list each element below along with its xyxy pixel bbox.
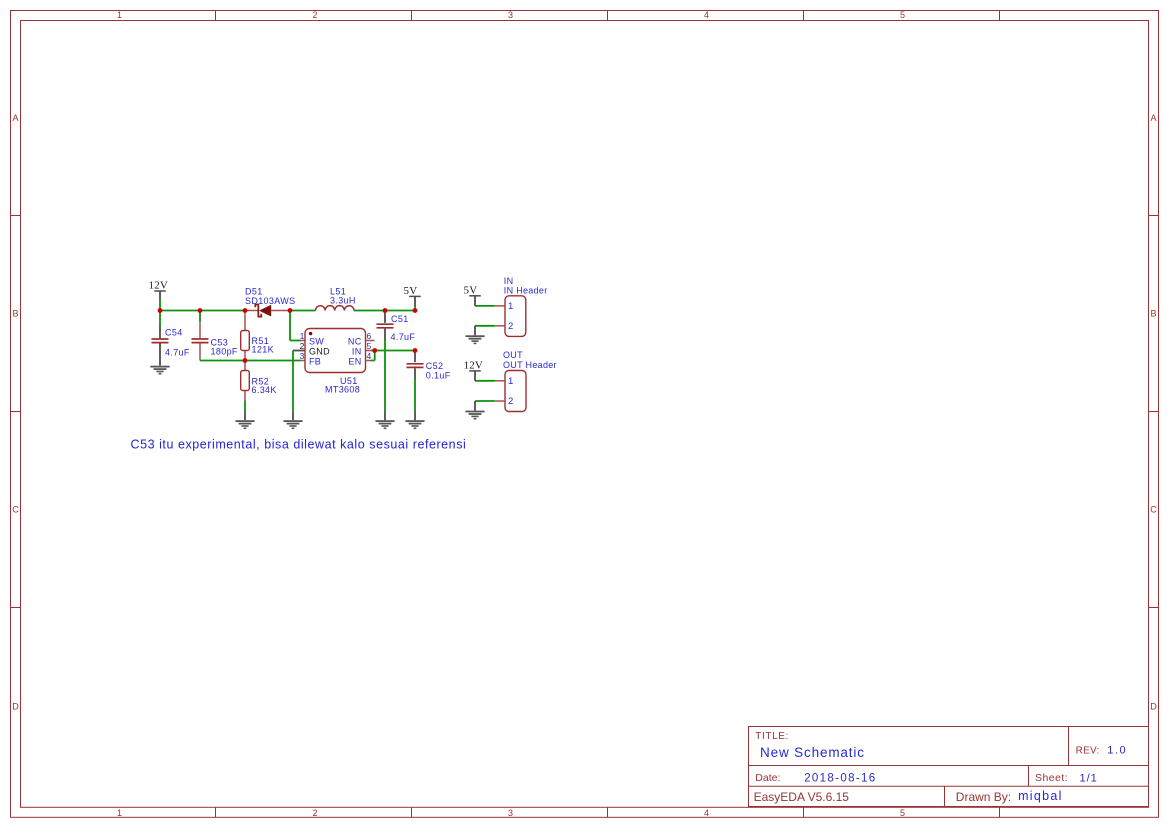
svg-text:MT3608: MT3608 — [325, 385, 360, 395]
svg-text:miqbal: miqbal — [1018, 789, 1063, 803]
svg-text:2: 2 — [508, 321, 513, 332]
svg-text:1: 1 — [508, 301, 513, 312]
svg-text:1/1: 1/1 — [1080, 772, 1098, 784]
svg-text:0.1uF: 0.1uF — [426, 370, 451, 380]
svg-text:2: 2 — [312, 10, 317, 20]
svg-text:OUT: OUT — [503, 350, 523, 360]
svg-text:3: 3 — [300, 351, 305, 361]
svg-text:5: 5 — [367, 341, 372, 351]
svg-text:A: A — [1150, 113, 1156, 123]
svg-text:GND: GND — [309, 346, 330, 356]
svg-text:4: 4 — [704, 808, 709, 818]
svg-text:REV:: REV: — [1076, 745, 1100, 756]
svg-text:C: C — [12, 505, 19, 515]
svg-text:5V: 5V — [404, 285, 418, 297]
svg-text:5: 5 — [900, 10, 905, 20]
svg-text:12V: 12V — [464, 360, 484, 372]
svg-text:FB: FB — [309, 356, 321, 366]
svg-text:IN Header: IN Header — [504, 285, 548, 295]
svg-text:C54: C54 — [165, 327, 183, 337]
svg-text:NC: NC — [348, 336, 362, 346]
svg-text:B: B — [1150, 309, 1156, 319]
svg-text:EN: EN — [348, 356, 361, 366]
svg-text:IN: IN — [352, 346, 362, 356]
svg-text:1: 1 — [117, 808, 122, 818]
svg-text:C53 itu experimental, bisa dil: C53 itu experimental, bisa dilewat kalo … — [131, 438, 467, 452]
svg-text:2018-08-16: 2018-08-16 — [804, 772, 876, 784]
svg-text:D51: D51 — [245, 286, 263, 296]
svg-text:180pF: 180pF — [211, 347, 238, 357]
svg-text:C: C — [1150, 505, 1157, 515]
svg-text:5: 5 — [900, 808, 905, 818]
svg-text:4: 4 — [704, 10, 709, 20]
svg-text:Date:: Date: — [755, 772, 780, 784]
svg-text:C51: C51 — [391, 314, 409, 324]
svg-text:3: 3 — [508, 808, 513, 818]
svg-text:12V: 12V — [149, 280, 169, 292]
svg-text:2: 2 — [508, 396, 513, 407]
svg-text:Drawn By:: Drawn By: — [956, 790, 1011, 804]
svg-text:6: 6 — [367, 331, 372, 341]
svg-text:2: 2 — [300, 341, 305, 351]
svg-text:SW: SW — [309, 336, 324, 346]
svg-text:Sheet:: Sheet: — [1035, 772, 1068, 784]
svg-text:D: D — [1150, 702, 1157, 712]
svg-text:IN: IN — [504, 276, 514, 286]
svg-text:1: 1 — [117, 10, 122, 20]
svg-text:121K: 121K — [252, 344, 274, 354]
svg-text:SD103AWS: SD103AWS — [245, 296, 296, 306]
svg-text:5V: 5V — [464, 285, 478, 297]
svg-text:New Schematic: New Schematic — [760, 745, 865, 760]
svg-text:3.3uH: 3.3uH — [330, 296, 356, 306]
svg-text:6.34K: 6.34K — [252, 385, 277, 395]
svg-text:OUT Header: OUT Header — [503, 360, 557, 370]
svg-text:3: 3 — [508, 10, 513, 20]
svg-text:D: D — [12, 702, 19, 712]
svg-text:2: 2 — [312, 808, 317, 818]
svg-text:1: 1 — [300, 331, 305, 341]
svg-text:B: B — [12, 309, 18, 319]
svg-text:4: 4 — [367, 351, 372, 361]
svg-text:EasyEDA V5.6.15: EasyEDA V5.6.15 — [754, 790, 850, 804]
svg-text:4.7uF: 4.7uF — [165, 347, 190, 357]
svg-text:A: A — [12, 113, 18, 123]
svg-text:1.0: 1.0 — [1107, 744, 1127, 756]
svg-text:TITLE:: TITLE: — [755, 731, 789, 742]
svg-text:4.7uF: 4.7uF — [391, 332, 416, 342]
svg-text:1: 1 — [508, 376, 513, 387]
